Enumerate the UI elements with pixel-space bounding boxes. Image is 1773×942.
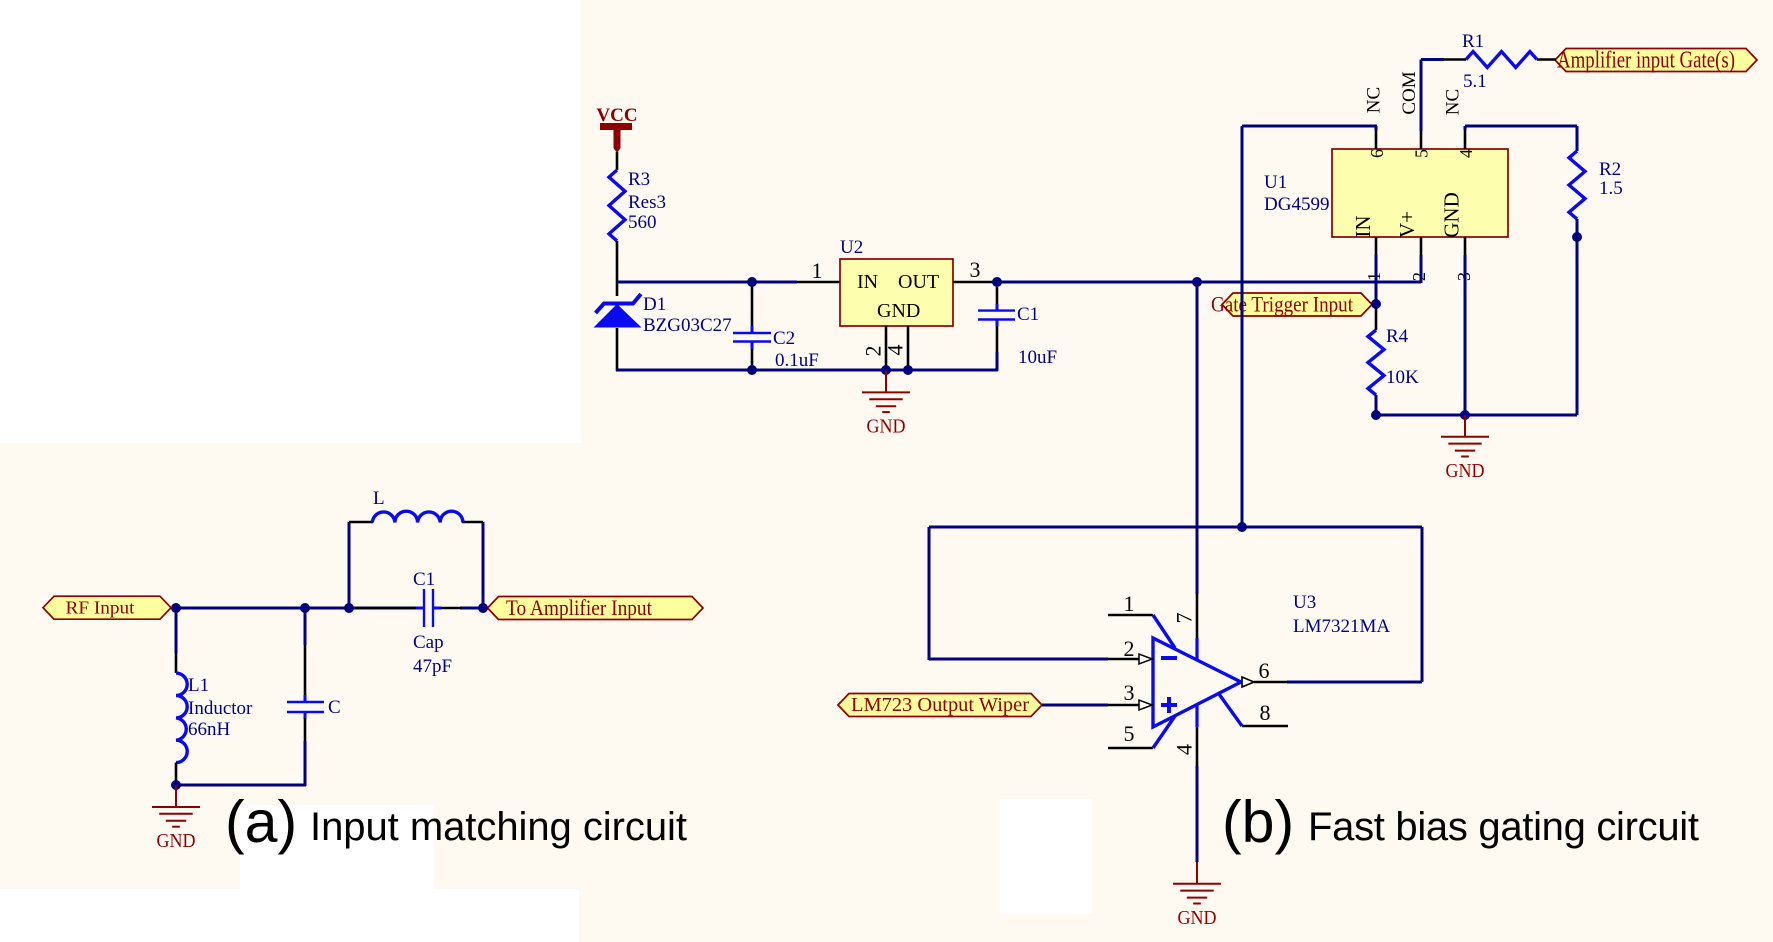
svg-text:5: 5 — [1124, 721, 1135, 746]
svg-text:Res3: Res3 — [628, 192, 666, 213]
svg-text:C1: C1 — [413, 569, 435, 590]
svg-text:1.5: 1.5 — [1599, 178, 1623, 199]
svg-text:2: 2 — [1124, 636, 1135, 661]
svg-text:1: 1 — [1124, 591, 1135, 616]
svg-text:(b): (b) — [1222, 789, 1294, 855]
svg-text:U1: U1 — [1264, 172, 1287, 193]
svg-text:Input matching circuit: Input matching circuit — [310, 805, 687, 849]
svg-text:1: 1 — [1364, 272, 1384, 281]
svg-text:10K: 10K — [1386, 367, 1419, 388]
svg-text:GND: GND — [157, 830, 196, 852]
svg-text:VCC: VCC — [596, 105, 637, 126]
svg-text:GND: GND — [1446, 460, 1485, 482]
svg-text:IN: IN — [1351, 215, 1375, 237]
svg-text:C: C — [328, 697, 341, 718]
svg-text:47pF: 47pF — [413, 656, 452, 677]
svg-text:0.1uF: 0.1uF — [775, 350, 819, 371]
svg-text:6: 6 — [1367, 149, 1387, 158]
svg-text:L1: L1 — [188, 675, 209, 696]
svg-text:NC: NC — [1443, 89, 1464, 115]
svg-text:3: 3 — [1124, 680, 1135, 705]
svg-text:NC: NC — [1364, 87, 1385, 113]
svg-text:8: 8 — [1260, 700, 1271, 725]
svg-text:DG4599: DG4599 — [1264, 194, 1329, 215]
svg-text:66nH: 66nH — [188, 719, 231, 740]
svg-text:D1: D1 — [643, 294, 666, 315]
svg-text:C2: C2 — [773, 328, 795, 349]
svg-text:R1: R1 — [1462, 31, 1484, 52]
svg-text:V+: V+ — [1395, 211, 1419, 238]
svg-text:GND: GND — [1178, 907, 1217, 929]
svg-text:7: 7 — [1172, 613, 1197, 624]
svg-text:IN: IN — [857, 271, 878, 293]
svg-text:BZG03C27: BZG03C27 — [643, 315, 732, 336]
svg-text:L: L — [373, 488, 385, 509]
svg-text:5: 5 — [1412, 149, 1432, 158]
svg-text:GND: GND — [867, 416, 906, 438]
svg-text:Gate Trigger Input: Gate Trigger Input — [1211, 291, 1353, 316]
svg-text:10uF: 10uF — [1018, 347, 1057, 368]
svg-text:RF Input: RF Input — [66, 597, 135, 617]
svg-text:Cap: Cap — [413, 632, 444, 653]
svg-text:GND: GND — [877, 300, 920, 322]
svg-text:6: 6 — [1259, 658, 1270, 683]
svg-text:COM: COM — [1399, 71, 1420, 114]
svg-text:U2: U2 — [840, 237, 863, 258]
svg-text:C1: C1 — [1017, 304, 1039, 325]
svg-text:LM723 Output Wiper: LM723 Output Wiper — [851, 694, 1029, 716]
svg-text:To Amplifier Input: To Amplifier Input — [506, 595, 652, 620]
svg-text:R4: R4 — [1386, 326, 1409, 347]
svg-text:GND: GND — [1440, 192, 1464, 238]
svg-text:4: 4 — [883, 345, 908, 356]
svg-text:Fast bias gating circuit: Fast bias gating circuit — [1308, 805, 1699, 849]
svg-text:R3: R3 — [628, 169, 650, 190]
svg-text:4: 4 — [1172, 744, 1197, 755]
svg-text:4: 4 — [1456, 149, 1476, 158]
svg-text:R2: R2 — [1599, 159, 1621, 180]
svg-text:LM7321MA: LM7321MA — [1293, 616, 1390, 637]
svg-text:1: 1 — [812, 258, 823, 283]
svg-text:(a): (a) — [225, 789, 297, 855]
svg-text:U3: U3 — [1293, 592, 1316, 613]
svg-text:OUT: OUT — [898, 271, 939, 293]
svg-text:3: 3 — [970, 257, 981, 282]
svg-text:560: 560 — [628, 212, 657, 233]
svg-text:5.1: 5.1 — [1463, 71, 1487, 92]
svg-text:Amplifier input Gate(s): Amplifier input Gate(s) — [1557, 47, 1735, 73]
svg-text:2: 2 — [1409, 272, 1429, 281]
svg-text:Inductor: Inductor — [188, 698, 253, 719]
